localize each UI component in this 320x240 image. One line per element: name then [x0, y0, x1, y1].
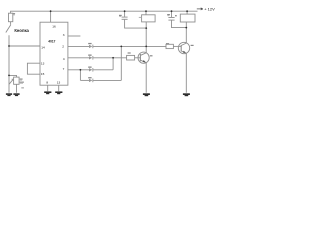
- wire resistor to switch: [10, 22, 12, 25]
- svg-text:7: 7: [63, 67, 65, 71]
- diode VD3: [89, 68, 92, 71]
- node rail-relay: [186, 10, 188, 12]
- svg-text:4017: 4017: [48, 39, 55, 43]
- label R6: [128, 52, 131, 53]
- wire fourth diode row: [80, 79, 89, 81]
- wire vertical diode1 row to diode4 row: [120, 46, 122, 80]
- capacitor C2 plates: [122, 16, 128, 18]
- wire pin 8 to ground: [47, 85, 49, 91]
- transistor Q1 base bar: [139, 54, 141, 61]
- wire pin 13 bottom to ground: [58, 85, 60, 91]
- wire rail to R8: [145, 11, 147, 15]
- diode VD4: [89, 79, 92, 82]
- Q1 emitter arrow: [143, 60, 146, 62]
- label VD3: [88, 67, 91, 68]
- wire pins 13-15 loop: [27, 63, 40, 74]
- node rail-C2: [124, 10, 126, 12]
- switch SB1 Кнопка lever: [6, 25, 11, 33]
- label VD4: [88, 77, 91, 78]
- ground (Q1 emitter): [143, 93, 150, 95]
- relay K1 box: [180, 14, 195, 22]
- wire C3 bottom to node: [172, 20, 187, 27]
- label VD1: [88, 43, 91, 44]
- wire pin 7 row: [68, 69, 89, 71]
- arrow to +12V: [197, 8, 203, 10]
- Q2 emitter arrow: [183, 51, 186, 53]
- node C3-relay-collector: [185, 27, 187, 29]
- potentiometer R1 box: [14, 77, 20, 84]
- ground (IC pin 13): [55, 91, 62, 93]
- resistor R8 box (middle): [142, 15, 156, 22]
- wire pin 2 row to R7: [68, 45, 89, 47]
- wire pin 16 to rail: [50, 11, 52, 22]
- transistor Q1 emitter: [141, 60, 147, 93]
- resistor R6 box: [127, 55, 135, 60]
- transistor Q2 base bar: [180, 45, 182, 52]
- node button-pin14: [8, 45, 10, 47]
- node diode1-vertical: [120, 46, 122, 48]
- potentiometer R1 wiper arrow: [9, 79, 14, 84]
- ground (button chain): [6, 93, 12, 95]
- node rail-R8: [145, 10, 147, 12]
- node pin7-vertical: [80, 69, 82, 71]
- IC U1 4017 decade counter body: [40, 22, 68, 85]
- node diode3-base: [112, 57, 114, 59]
- wire R7 to Q2 base: [173, 45, 181, 47]
- svg-text:13: 13: [57, 80, 61, 84]
- ground (potentiometer): [13, 93, 19, 95]
- wire pin 4 base row: [68, 57, 89, 59]
- svg-text:16: 16: [52, 24, 56, 28]
- resistor R7 box: [166, 44, 173, 48]
- svg-text:14: 14: [41, 45, 45, 49]
- label VD2: [88, 55, 91, 56]
- label C2: [119, 15, 122, 16]
- label R7: [166, 43, 169, 44]
- label R1 value: [20, 82, 24, 83]
- svg-text:15: 15: [41, 72, 45, 76]
- svg-text:+ 12V: + 12V: [204, 6, 215, 11]
- label R2: [13, 13, 15, 14]
- wire potentiometer to ground: [16, 84, 18, 93]
- wire relay to node: [185, 22, 187, 28]
- transistor Q1 VT1 circle: [138, 52, 149, 63]
- svg-text:4: 4: [63, 57, 65, 61]
- label C3: [167, 14, 170, 15]
- wire vertical pin7 row to diode row 4: [79, 70, 81, 81]
- wire node to pin 14: [9, 45, 40, 47]
- node rail-pin16: [50, 10, 52, 12]
- transistor Q2 collector: [181, 28, 186, 46]
- node button-pot: [8, 75, 10, 77]
- wire pin 3 stub: [68, 35, 81, 37]
- diode VD1: [89, 45, 92, 48]
- transistor Q2 emitter: [181, 51, 186, 93]
- label near pot ground: [21, 87, 24, 88]
- wire node to potentiometer top: [9, 75, 17, 77]
- label R1: [20, 79, 23, 80]
- node C2-R8-collector: [145, 27, 147, 29]
- label C3 plus: [175, 15, 177, 16]
- wire vertical diode3 to base row: [112, 58, 114, 70]
- svg-text:8: 8: [46, 80, 48, 84]
- resistor R2 (top-left): [9, 13, 13, 22]
- svg-text:13: 13: [41, 62, 45, 66]
- transistor Q2 VT2 circle: [178, 42, 189, 53]
- wire R8 to node: [145, 22, 147, 28]
- label VT1: [150, 55, 153, 56]
- ground (IC pin 8): [44, 91, 51, 93]
- label VT2: [191, 45, 194, 46]
- capacitor C3 plates: [168, 17, 174, 19]
- svg-text:3: 3: [63, 33, 65, 37]
- svg-text:Кнопка: Кнопка: [14, 28, 29, 33]
- ground (Q2 emitter): [183, 93, 190, 95]
- wire switch down main vertical: [8, 35, 10, 93]
- capacitor C2 wire from rail: [124, 11, 126, 17]
- wire C2 bottom to node: [125, 20, 147, 29]
- diode VD2: [89, 56, 92, 59]
- node rail-C3: [171, 10, 173, 12]
- transistor Q1 collector: [141, 28, 147, 55]
- wire rail to relay: [186, 11, 188, 14]
- label R8: [139, 17, 142, 18]
- svg-text:2: 2: [62, 45, 64, 49]
- wire top +12V rail: [11, 11, 198, 13]
- node Q1 collector R7: [145, 46, 147, 48]
- capacitor C3 wire from rail: [171, 11, 173, 17]
